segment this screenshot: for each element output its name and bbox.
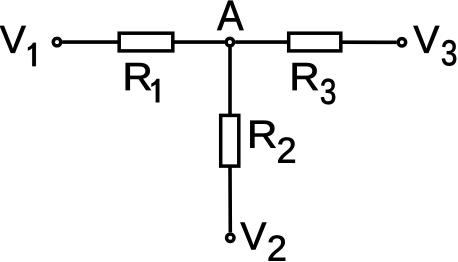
label V2 letter V <box>241 223 267 250</box>
wire V1 to R1 <box>62 40 119 44</box>
label A (node name) <box>217 1 243 30</box>
resistor R3 (body) <box>289 33 341 51</box>
node A (open junction circle) <box>226 38 233 45</box>
resistor R1 (body) <box>119 33 173 51</box>
label V3 letter V <box>414 26 440 53</box>
resistor R2 (body) <box>221 115 239 166</box>
label V3 subscript 3 <box>442 40 456 65</box>
label V2 subscript 2 <box>269 235 285 260</box>
label R3 letter R <box>293 63 318 90</box>
wire R1 to node A <box>173 40 225 44</box>
wire R2 down to V2 <box>228 165 232 232</box>
label R2 letter R <box>250 121 275 148</box>
label R1 letter R <box>126 63 151 90</box>
label R3 subscript 3 <box>321 79 335 104</box>
label R2 subscript 2 <box>278 137 294 162</box>
wire R3 to V3 <box>341 40 397 44</box>
terminal V1 (open circle) <box>53 38 60 45</box>
label V1 subscript 1 <box>28 43 36 66</box>
terminal V3 (open circle) <box>398 39 405 46</box>
label R1 subscript 1 <box>151 79 159 103</box>
label V1 letter V <box>0 26 26 53</box>
wire node A to R3 <box>235 40 289 44</box>
wire node A down to R2 <box>228 47 232 116</box>
terminal V2 (open circle) <box>227 234 234 241</box>
